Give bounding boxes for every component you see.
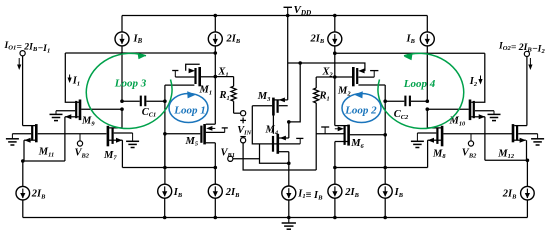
ground M7 gate	[126, 133, 139, 148]
current source IB bottom right	[378, 184, 392, 217]
bulk tick M2	[358, 71, 378, 78]
wire y53 right	[335, 52, 485, 54]
svg-text:M2: M2	[337, 86, 351, 98]
node dot bus right 2IB	[333, 166, 337, 170]
terminal VIN+	[241, 111, 246, 116]
arrow IO2 current direction	[528, 58, 532, 70]
svg-text:M8: M8	[432, 148, 446, 160]
ground M10 gate	[488, 111, 501, 121]
wire VB1 net	[260, 144, 289, 163]
svg-text:IB: IB	[394, 187, 404, 199]
wire M8 drain to M12 with VB2 tap	[443, 133, 512, 135]
current source IB top-left	[115, 16, 129, 102]
node dot M4 riser	[287, 120, 291, 124]
wire M4 source down to I1	[288, 152, 290, 164]
svg-text:M4: M4	[265, 125, 279, 137]
svg-text:R1: R1	[319, 91, 330, 103]
wire X1 to R1	[215, 76, 233, 78]
terminal VB2 right	[468, 134, 473, 146]
svg-text:2IB: 2IB	[226, 33, 241, 45]
node dot M6 drain tap	[383, 133, 387, 137]
wire IB column to M8 drain top	[427, 109, 442, 128]
wire M2 gate to column	[384, 85, 386, 184]
label VIN minus	[240, 136, 245, 138]
ground M12 gate	[531, 134, 544, 145]
wire y63 from VDD to M2 source	[288, 63, 365, 71]
terminal VB2 left	[77, 134, 82, 146]
arrowhead Loop 3	[138, 53, 147, 60]
ground M9 gate	[50, 111, 63, 121]
svg-text:IB: IB	[133, 33, 143, 45]
terminal VB1	[228, 156, 260, 161]
node dot y63 branch	[298, 61, 302, 65]
node dot X0 right	[333, 51, 337, 55]
bulk tick M1	[172, 71, 194, 78]
node dot bus right at IB	[383, 166, 387, 170]
svg-text:IB: IB	[173, 187, 183, 199]
arrow I1 current	[68, 75, 72, 84]
label VIN plus	[240, 118, 246, 124]
svg-text:R1: R1	[219, 90, 230, 102]
wire top supply rail	[122, 15, 427, 17]
wire M3 drain down to M4 gate net	[252, 106, 259, 144]
svg-text:VIN: VIN	[237, 125, 251, 136]
arrow IO1 current direction	[17, 58, 21, 70]
node X1 dot	[214, 75, 218, 79]
current source 2IB bottom far-left	[16, 161, 30, 218]
svg-text:Loop 2: Loop 2	[344, 105, 377, 117]
loop ellipse Loop 3	[86, 53, 172, 128]
svg-text:M1: M1	[199, 85, 213, 97]
wire VIN- to M6 gate riser	[243, 143, 316, 170]
svg-text:M3: M3	[257, 91, 271, 103]
svg-text:I1: I1	[72, 76, 80, 88]
svg-text:VB1: VB1	[221, 147, 235, 159]
resistor R1 right	[314, 77, 319, 170]
svg-text:Loop 4: Loop 4	[403, 78, 436, 90]
current source 2IB bottom right-mid	[328, 168, 342, 218]
ground M11 gate	[6, 134, 19, 145]
svg-text:I1≡ IB: I1≡ IB	[297, 189, 323, 202]
wire bus right	[335, 167, 428, 169]
node dot I1 top	[287, 162, 291, 166]
node dot rail 2IB right	[333, 216, 337, 220]
terminal VIN-	[241, 138, 246, 143]
terminal IO2	[524, 51, 529, 56]
wire left column to M9 drain	[65, 53, 79, 102]
node X2 dot	[333, 75, 337, 79]
wire bus left	[122, 167, 215, 169]
transistor M2	[335, 67, 385, 86]
arrowhead Loop 4	[404, 54, 413, 61]
svg-text:Loop 1: Loop 1	[173, 105, 205, 117]
transistor M12	[513, 124, 538, 160]
resistor R1 left	[231, 77, 236, 114]
VDD supply tick	[284, 7, 293, 15]
node dot CC1 right	[163, 99, 167, 103]
bulk tick M5	[206, 128, 228, 132]
svg-text:M6: M6	[350, 138, 364, 150]
node dot output right	[526, 159, 530, 163]
current source 2IB top-left	[208, 16, 222, 125]
wire IB column to M7 drain top	[108, 109, 122, 128]
svg-text:CC2: CC2	[394, 109, 409, 121]
svg-text:I2: I2	[469, 76, 478, 88]
ground main	[282, 218, 296, 230]
svg-text:M12: M12	[497, 148, 515, 160]
transistor M1	[165, 64, 215, 86]
current source 2IB bottom left	[208, 168, 222, 218]
svg-text:M11: M11	[38, 147, 54, 159]
capacitor CC1	[122, 96, 165, 107]
svg-text:IO2= 2IB−I2: IO2= 2IB−I2	[498, 41, 545, 55]
wire bottom rail	[23, 217, 528, 219]
current source IB bottom left	[158, 134, 172, 218]
svg-text:VDD: VDD	[294, 4, 313, 17]
svg-text:2IB: 2IB	[502, 189, 517, 201]
current source I1 center	[282, 163, 296, 217]
node dot M5 gate tap	[163, 132, 167, 136]
bulk tick M4	[296, 138, 303, 144]
node dot top rail at VDD	[286, 14, 290, 18]
transistor M4	[260, 134, 301, 154]
current source 2IB bottom far-right	[521, 160, 535, 217]
svg-text:M10: M10	[449, 116, 467, 128]
transistor M6	[316, 125, 385, 168]
node dot bus left IB	[163, 166, 167, 170]
node dot X0 left	[214, 51, 218, 55]
capacitor CC2	[385, 96, 427, 107]
svg-text:IB: IB	[406, 33, 416, 45]
wire IO2 output line	[526, 57, 528, 126]
svg-text:M9: M9	[81, 116, 95, 128]
loop ellipse Loop 4	[378, 53, 464, 128]
current source IB top-right	[420, 16, 434, 102]
wire y53 left	[65, 52, 215, 54]
svg-text:IO1= 2IB−I1: IO1= 2IB−I1	[4, 40, 51, 54]
node dot rail I1	[287, 216, 291, 220]
loop ellipse Loop 2	[342, 94, 381, 123]
node dot top rail at 2IB right	[333, 14, 337, 18]
svg-text:2IB: 2IB	[31, 189, 46, 201]
node dot rail IB left	[163, 216, 167, 220]
wire M4 source riser to top	[289, 63, 300, 138]
node dot top rail at 2IB left	[214, 14, 218, 18]
transistor M7	[108, 126, 133, 168]
svg-text:2IB: 2IB	[310, 33, 325, 45]
ground M8 gate	[411, 133, 424, 148]
wire output node right	[485, 159, 528, 161]
node dot CC1 left	[120, 99, 124, 103]
node dot rail IB right	[383, 216, 387, 220]
wire M1 bottom to column	[164, 85, 166, 167]
transistor M10	[427, 100, 494, 161]
arrowhead Loop 2	[354, 91, 363, 98]
svg-text:Loop 3: Loop 3	[114, 78, 147, 90]
transistor M11	[12, 124, 36, 161]
node dot output left	[21, 159, 25, 163]
node dot rail 2IB left	[214, 216, 218, 220]
node dot CC2 right	[426, 99, 430, 103]
transistor M9	[56, 100, 122, 162]
wire X2 to R1 right	[316, 76, 335, 78]
current source 2IB top-right	[328, 16, 342, 126]
svg-text:CC1: CC1	[142, 107, 156, 119]
transistor M3	[252, 98, 287, 134]
svg-text:2IB: 2IB	[225, 187, 240, 199]
arrow I2 current	[478, 76, 482, 85]
loop ellipse Loop 1	[169, 94, 208, 123]
node dot bus left 2IB	[214, 166, 218, 170]
transistor M8	[417, 126, 442, 168]
node dot IB column M9 drain	[120, 107, 124, 111]
svg-text:VB2: VB2	[75, 148, 90, 160]
node dot IB column M10 drain	[426, 107, 430, 111]
wire VDD column to M3 source	[287, 16, 289, 100]
transistor M5	[165, 124, 215, 168]
wire to VIN+ terminal	[234, 112, 241, 114]
svg-text:M7: M7	[103, 150, 117, 162]
svg-text:M5: M5	[185, 136, 199, 148]
wire output node left	[23, 160, 65, 162]
arrowhead Loop 1	[187, 91, 196, 98]
wire IO1 output line	[22, 56, 24, 126]
terminal IO1	[20, 51, 25, 56]
wire M11 drain to M7 with VB2 tap	[38, 133, 107, 135]
wire right column to M10 drain	[471, 53, 485, 102]
svg-text:2IB: 2IB	[344, 187, 359, 199]
bulk tick M6	[321, 127, 329, 134]
svg-text:VB2: VB2	[462, 148, 477, 160]
node dot CC2 left	[383, 99, 387, 103]
